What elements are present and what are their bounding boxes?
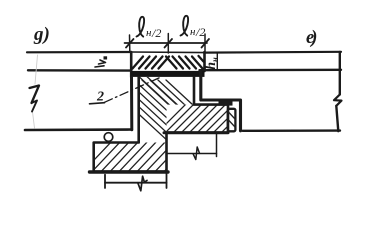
joint band right edge <box>203 52 206 71</box>
svg-text:е): е) <box>306 28 316 48</box>
bolt plate on ledge <box>219 100 233 105</box>
flange bottom thick line <box>90 170 169 173</box>
svg-text:/2: /2 <box>151 26 161 40</box>
dimension label l_n/2 left <box>137 17 162 40</box>
svg-text:2: 2 <box>96 90 104 105</box>
right slab bottom line <box>243 129 341 132</box>
tick slash left <box>126 39 134 48</box>
joint packing hatch right backslashes <box>166 56 204 69</box>
left slab left edge faint <box>33 55 38 128</box>
svg-text:g): g) <box>33 24 50 45</box>
left slab bottom line <box>25 128 132 131</box>
right edge break zigzag <box>334 95 342 106</box>
position label 2 underline <box>90 103 105 104</box>
right slab right edge upper <box>339 52 341 95</box>
dimension label l_n/2 right <box>181 16 206 39</box>
joint packing hatch left slashes <box>133 57 170 69</box>
left slab second line <box>28 69 131 72</box>
top dimension line <box>125 42 208 44</box>
extension line at x=205 <box>204 34 206 52</box>
ledge bottom thick line <box>164 131 228 134</box>
right slab top line <box>204 51 341 54</box>
tick after h_n label <box>216 53 218 71</box>
tick slash right <box>202 39 210 48</box>
extension line at x=129.5 <box>129 35 131 52</box>
extension line at x=168.3 <box>167 34 169 54</box>
ledge width dimension line <box>167 153 217 155</box>
beam outline (web, ledges, flange) <box>94 77 228 172</box>
top line across joint band <box>131 51 204 54</box>
joint band left edge <box>130 52 133 77</box>
ledge dimension break mark <box>193 147 199 160</box>
left edge break mark foot <box>32 101 38 112</box>
svg-text:/2: /2 <box>195 25 205 39</box>
left slab top line <box>27 51 131 53</box>
tick slash middle <box>165 39 173 48</box>
bottom dimension left extension <box>104 175 106 188</box>
bottom dimension break mark <box>138 176 147 191</box>
round bar on left ledge <box>104 133 113 142</box>
solid black bearing bar <box>131 71 205 77</box>
bottom dimension right extension <box>166 173 168 188</box>
left slab end face <box>130 77 133 130</box>
bottom dimension line <box>105 182 167 184</box>
right slab notched end profile <box>201 72 241 131</box>
ledge end block outline <box>228 109 236 132</box>
position leader line dash-dot to bearing <box>105 78 161 103</box>
hatch: ledge slash <box>152 102 252 138</box>
right slab second line <box>200 69 342 72</box>
ledge end block hatch <box>229 112 236 127</box>
left edge break mark <box>30 86 40 104</box>
right slab right edge lower <box>336 106 338 131</box>
ledge dimension extension <box>216 134 218 157</box>
hatch: beam web and head backslash <box>102 72 234 143</box>
break mark h_n left slab <box>95 56 107 67</box>
hatch: bottom flange slash <box>77 140 194 178</box>
